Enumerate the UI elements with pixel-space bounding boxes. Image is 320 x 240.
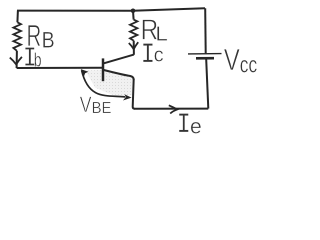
transistor base bar (102, 58, 105, 81)
svg-text:c: c (154, 44, 164, 66)
resistor RB (13, 22, 21, 51)
svg-text:V: V (224, 42, 241, 77)
resistor RL (130, 20, 137, 41)
wire collector vertical (133, 41, 135, 55)
wire middle vertical lead (132, 11, 135, 20)
node junction dot (131, 9, 136, 14)
svg-text:V: V (80, 93, 92, 117)
arrow Ic (129, 42, 138, 49)
transistor collector lead (104, 55, 134, 64)
svg-text:e: e (190, 115, 202, 138)
svg-text:B: B (42, 28, 55, 53)
wire base (17, 67, 103, 69)
wire below RB (16, 51, 18, 68)
wire right vertical upper (204, 8, 207, 53)
svg-text:BE: BE (92, 100, 112, 118)
wire left vertical lead (16, 11, 19, 23)
arrowhead VBE left (points to base wire) (81, 69, 89, 77)
transistor emitter lead (104, 70, 134, 80)
arc VBE with arrowheads (82, 70, 126, 97)
wire top (17, 8, 205, 11)
wire right vertical lower (206, 59, 208, 108)
battery Vcc bottom plate (196, 57, 214, 60)
arrow Ie (169, 105, 178, 113)
svg-text:I: I (177, 109, 191, 140)
arrow Ib (10, 57, 22, 65)
wire bottom (134, 108, 208, 110)
wire emitter vertical (133, 79, 135, 109)
arrowhead VBE right (points to emitter wire) (123, 94, 132, 100)
battery Vcc top plate (188, 53, 222, 55)
svg-text:cc: cc (240, 52, 257, 78)
svg-text:L: L (155, 23, 168, 45)
